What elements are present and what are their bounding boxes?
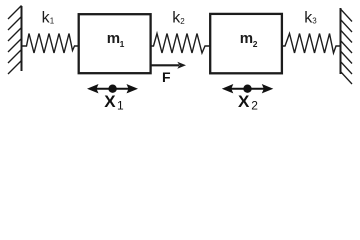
svg-text:m: m bbox=[107, 30, 120, 47]
svg-text:X: X bbox=[238, 92, 250, 111]
svg-text:1: 1 bbox=[117, 99, 124, 113]
svg-text:1: 1 bbox=[120, 39, 125, 49]
svg-text:3: 3 bbox=[312, 17, 317, 26]
svg-text:X: X bbox=[104, 92, 116, 111]
svg-text:2: 2 bbox=[180, 17, 185, 26]
svg-text:2: 2 bbox=[251, 99, 258, 113]
svg-text:2: 2 bbox=[253, 39, 258, 49]
svg-text:F: F bbox=[162, 69, 171, 85]
svg-text:m: m bbox=[240, 30, 253, 47]
svg-text:1: 1 bbox=[50, 17, 55, 26]
